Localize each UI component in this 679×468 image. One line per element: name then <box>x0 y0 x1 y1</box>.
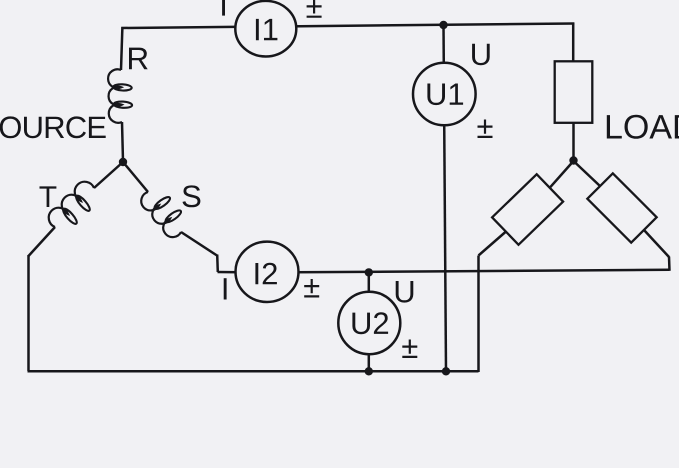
resistor load right phase <box>587 173 656 242</box>
wire S horizontal (S phase line) <box>294 270 670 273</box>
inductor R <box>108 69 122 123</box>
wire T coil upper lead <box>94 162 123 188</box>
node U2 top junction <box>365 268 373 276</box>
inductor T <box>49 182 94 227</box>
wire R coil bottom lead <box>122 122 123 161</box>
node U2 bottom junction <box>365 367 373 375</box>
wire R coil top lead <box>121 27 122 70</box>
wire load left lower lead <box>479 232 507 256</box>
wire load right upper lead <box>574 161 601 187</box>
ammeter I2 <box>236 242 299 302</box>
wire S coil lower lead <box>181 232 217 256</box>
label LOAD <box>607 115 679 139</box>
wire left vertical <box>27 255 30 371</box>
label I near I1 <box>222 0 225 16</box>
label R <box>129 48 148 70</box>
wire S coil upper lead <box>123 162 148 192</box>
label plusminus near U2 <box>402 340 417 359</box>
node source star point <box>119 158 127 166</box>
label SOURCE <box>0 116 106 138</box>
label I near I2 <box>224 278 227 299</box>
resistor load top phase <box>555 61 593 123</box>
label T <box>40 186 57 207</box>
wire T coil lower lead <box>29 227 56 256</box>
node top junction <box>439 21 447 29</box>
label plusminus near I2 <box>304 279 319 298</box>
resistor load left phase <box>492 174 563 244</box>
wire top horizontal (R phase line) <box>121 24 574 29</box>
node load star point <box>569 156 577 164</box>
wire riser to left load resistor <box>477 256 480 373</box>
label S <box>183 185 201 207</box>
label plusminus near U1 <box>478 120 493 139</box>
voltmeter U2 <box>338 292 400 354</box>
wire bottom horizontal <box>28 370 479 373</box>
wire load vertical top lead <box>572 23 575 62</box>
label U near U2 <box>396 281 414 303</box>
ammeter I1 <box>235 1 296 57</box>
label plusminus near I1 <box>307 0 322 18</box>
wire into ammeter I2 <box>218 271 241 274</box>
wire load right lower lead <box>644 230 669 257</box>
wire voltmeter U2 branch vertical <box>368 272 371 371</box>
node U1 bottom junction <box>442 367 450 375</box>
wire right riser <box>668 257 671 271</box>
wire S drop to I2 level <box>216 255 219 273</box>
label U near U1 <box>472 44 490 66</box>
voltmeter U1 <box>413 63 476 126</box>
inductor S <box>141 192 181 237</box>
wire load vertical bottom lead <box>572 123 575 160</box>
wire load left upper lead <box>550 161 574 188</box>
wire voltmeter U1 branch vertical <box>444 25 447 371</box>
